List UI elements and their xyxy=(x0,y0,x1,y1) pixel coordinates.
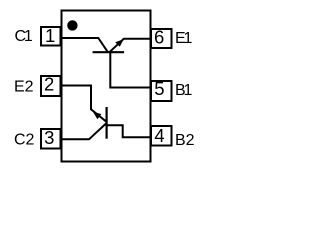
svg-text:3: 3 xyxy=(44,127,54,148)
svg-text:4: 4 xyxy=(154,125,164,146)
svg-text:B1: B1 xyxy=(175,82,192,99)
svg-text:B2: B2 xyxy=(175,132,195,149)
svg-text:6: 6 xyxy=(154,27,164,48)
svg-text:C1: C1 xyxy=(15,28,33,45)
svg-text:E2: E2 xyxy=(14,79,34,96)
svg-text:1: 1 xyxy=(45,25,55,46)
svg-text:C2: C2 xyxy=(14,132,35,149)
pin 6 box xyxy=(151,29,172,48)
package outline U1 xyxy=(62,11,151,162)
wire Q1 base to pin 5 B1 xyxy=(110,52,150,87)
transistor Q1 base bar xyxy=(93,51,125,53)
pin 5 box xyxy=(151,81,172,101)
wire pin2 E2 to Q2 emitter with arrow xyxy=(62,86,107,122)
pin 1 orientation dot xyxy=(67,20,77,30)
svg-text:2: 2 xyxy=(44,74,54,95)
transistor Q2 base bar xyxy=(105,107,107,139)
pin 3 box xyxy=(41,129,61,149)
wire pin1 C1 to Q1 collector xyxy=(62,38,108,52)
svg-text:E1: E1 xyxy=(175,30,192,47)
wire pin3 C2 to Q2 collector xyxy=(62,123,107,139)
transistor Q1 emitter with arrow to pin 6 xyxy=(110,39,151,52)
svg-text:5: 5 xyxy=(154,78,164,99)
pin 2 box xyxy=(41,76,61,96)
wire Q2 base to pin 4 B2 xyxy=(107,125,151,137)
pin 1 box xyxy=(41,27,61,46)
pin 4 box xyxy=(151,126,172,146)
